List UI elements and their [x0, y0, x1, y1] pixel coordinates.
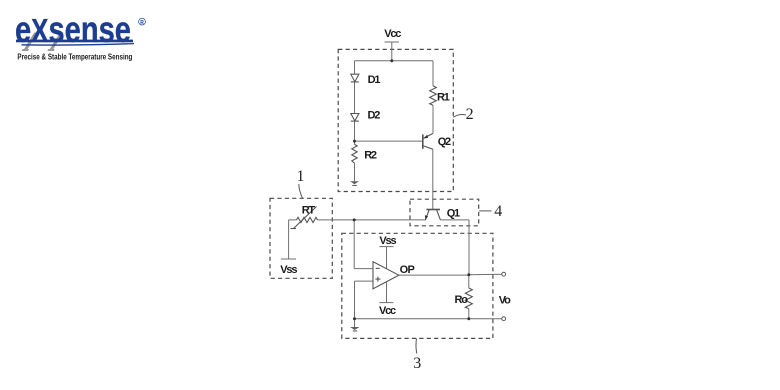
svg-text:Vcc: Vcc	[379, 305, 396, 317]
svg-text:Q2: Q2	[438, 136, 451, 148]
svg-text:Ro: Ro	[455, 294, 469, 306]
svg-text:Vss: Vss	[379, 235, 396, 247]
svg-text:Vo: Vo	[499, 295, 511, 307]
svg-text:R: R	[140, 20, 144, 26]
svg-text:Vss: Vss	[280, 264, 297, 276]
svg-text:R2: R2	[364, 150, 377, 162]
svg-text:Precise & Stable Temperature S: Precise & Stable Temperature Sensing	[17, 53, 132, 62]
svg-text:D1: D1	[368, 74, 381, 86]
svg-text:OP: OP	[400, 264, 415, 276]
svg-text:3: 3	[413, 355, 421, 372]
svg-text:D2: D2	[368, 109, 381, 121]
svg-text:1: 1	[297, 168, 305, 185]
svg-text:Vcc: Vcc	[384, 28, 401, 40]
svg-text:2: 2	[466, 106, 474, 123]
svg-text:4: 4	[494, 203, 502, 220]
svg-text:R1: R1	[437, 91, 450, 103]
svg-text:RT: RT	[302, 204, 316, 216]
svg-text:Q1: Q1	[447, 207, 460, 219]
